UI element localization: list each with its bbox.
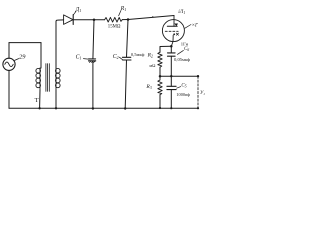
leader to source	[15, 59, 19, 61]
wire cathode lead down	[171, 35, 173, 46]
tube anode bar	[167, 25, 177, 27]
node after R1	[127, 18, 130, 21]
wire C2 to bottom rail	[125, 60, 126, 109]
wire loop top	[9, 42, 41, 44]
wire diode to node	[73, 19, 94, 21]
svg-text:1Гн: 1Гн	[181, 41, 189, 46]
leader to diode	[74, 11, 76, 14]
cathode node	[170, 45, 173, 48]
transformer T secondary winding	[55, 68, 57, 90]
wire primary top lead	[40, 43, 41, 69]
bottom rail	[9, 107, 198, 109]
wire C2 branch upper	[127, 20, 129, 58]
leader to C6	[177, 50, 183, 54]
diode D1	[64, 15, 73, 25]
speck	[152, 16, 153, 17]
junction primary bottom	[38, 107, 40, 109]
wire secondary top lead	[56, 20, 64, 68]
svg-text:R3: R3	[145, 84, 151, 90]
wire C6 top lead	[170, 46, 172, 53]
wire output rail	[160, 75, 198, 77]
wire node to R1	[94, 19, 105, 21]
wire C5 to bottom rail	[170, 90, 172, 109]
svg-text:R2: R2	[147, 52, 153, 58]
AC source G1	[3, 58, 15, 70]
wire C5 top lead	[170, 76, 172, 86]
svg-text:1000пф: 1000пф	[176, 92, 190, 97]
wire C6 to node	[170, 56, 172, 76]
leader to C5	[177, 87, 181, 89]
wire cathode to R2	[160, 46, 171, 52]
resistor R3	[158, 76, 162, 94]
junction C2 bottom	[124, 107, 126, 109]
resistor R1	[105, 17, 123, 22]
svg-text:С2: С2	[113, 54, 119, 60]
tube anode arrow	[174, 24, 178, 27]
leader to C1	[83, 58, 88, 61]
resistor R2	[158, 52, 162, 67]
svg-text:мΩ: мΩ	[149, 63, 156, 68]
tube grid (dashed)	[165, 30, 178, 32]
svg-text:0,05мкф: 0,05мкф	[174, 57, 190, 63]
node R2/R3	[159, 75, 162, 78]
wire R1 to node	[122, 19, 128, 21]
junction C1 bottom	[92, 107, 94, 109]
wire R2 to node	[159, 67, 161, 76]
svg-text:С6: С6	[184, 47, 189, 52]
leader to R1	[119, 10, 121, 15]
capacitor C1 (electrolytic)	[89, 58, 96, 60]
svg-text:15МΩ: 15МΩ	[108, 24, 121, 29]
svg-text:С5: С5	[181, 83, 186, 88]
wire primary bottom lead	[39, 90, 41, 108]
wire R3 to bottom rail	[159, 95, 161, 108]
wire C1 branch upper	[93, 20, 94, 59]
wire node to tube grid cap	[128, 16, 174, 20]
svg-text:0,5мкф: 0,5мкф	[131, 52, 145, 58]
cathode x mark	[176, 33, 178, 35]
transformer core	[46, 64, 49, 92]
wire right edge (broken)	[197, 76, 199, 108]
junction right corner	[197, 107, 199, 109]
capacitor C2	[122, 56, 130, 58]
tube L1 envelope	[162, 20, 184, 42]
svg-text:С1: С1	[76, 54, 82, 60]
tube cathode dot	[173, 33, 175, 35]
leader tube right label	[185, 25, 191, 29]
capacitor C6	[168, 52, 176, 54]
svg-text:×Г: ×Г	[192, 24, 198, 29]
wire source top lead	[8, 43, 10, 59]
wire grid cap down	[173, 16, 175, 27]
svg-text:29: 29	[19, 53, 26, 60]
wire C1 to bottom rail	[92, 61, 94, 108]
transformer T primary winding	[39, 68, 41, 90]
junction secondary bottom	[55, 107, 57, 109]
node after diode	[93, 18, 96, 21]
leader to C2	[119, 57, 122, 60]
wire source bottom lead	[8, 70, 10, 108]
svg-text:іЛ1: іЛ1	[178, 9, 185, 15]
capacitor C5	[167, 85, 176, 87]
wire secondary bottom lead	[55, 90, 57, 108]
svg-text:У1: У1	[200, 91, 205, 96]
svg-text:Т: Т	[35, 97, 39, 104]
